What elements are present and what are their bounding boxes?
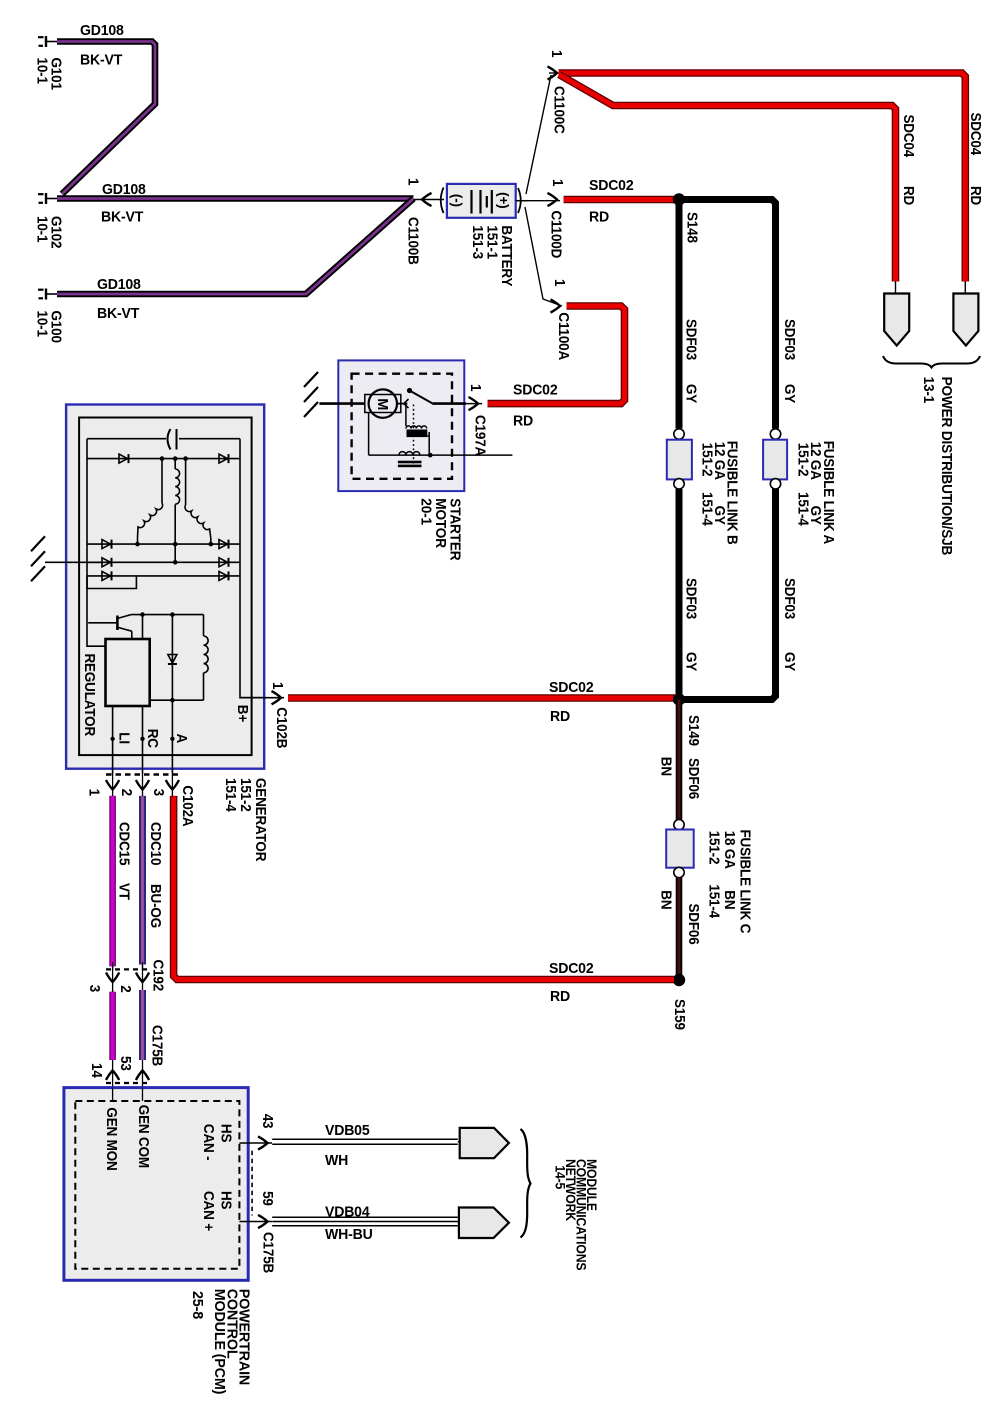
starter motor box	[338, 360, 464, 491]
diode row A left	[102, 540, 111, 549]
svg-text:BN: BN	[657, 757, 674, 776]
wire GD108 BK-VT from G101	[57, 42, 155, 195]
svg-text:GD108: GD108	[102, 182, 146, 198]
wire motor to switch contact	[397, 403, 407, 405]
svg-text:GEN COM: GEN COM	[135, 1105, 152, 1168]
svg-text:1: 1	[548, 50, 565, 58]
stator winding center coil	[175, 469, 179, 504]
fusible link C	[674, 820, 684, 830]
switch contact chevron	[404, 399, 409, 408]
generator box	[66, 405, 264, 769]
svg-text:BK-VT: BK-VT	[101, 209, 143, 225]
diode row A right	[219, 540, 228, 549]
diode upper-left	[119, 454, 128, 463]
svg-text:1: 1	[269, 682, 286, 690]
svg-text:2: 2	[117, 985, 134, 993]
PCM inner dashed box	[75, 1101, 239, 1269]
SJB pin terminal left	[895, 281, 897, 294]
svg-text:151-4: 151-4	[705, 884, 722, 918]
wire SDC02 RD generator to S159	[174, 796, 674, 980]
connector C1100B	[414, 199, 445, 201]
generator diode row wire (upper)	[87, 458, 240, 460]
connector C197A	[469, 397, 479, 410]
node solenoid junction	[428, 453, 433, 458]
generator inner box	[79, 418, 252, 756]
svg-text:RD: RD	[550, 989, 570, 1005]
ground (starter)	[304, 372, 318, 387]
connector pin arrows C102A	[106, 780, 119, 790]
svg-text:RD: RD	[900, 186, 917, 205]
svg-text:C175B: C175B	[148, 1025, 165, 1066]
svg-text:VT: VT	[115, 883, 132, 900]
node A-line junction	[170, 698, 175, 703]
svg-text:BU-OG: BU-OG	[147, 884, 164, 928]
node pin dots LI RC A	[110, 737, 114, 741]
svg-text:1: 1	[551, 279, 568, 287]
diode row C right	[219, 571, 228, 580]
connector C102B	[240, 697, 284, 699]
ground (generator)	[31, 536, 45, 551]
svg-text:1: 1	[549, 179, 566, 187]
motor circle with M	[369, 389, 397, 417]
svg-text:SDF03: SDF03	[682, 319, 699, 360]
wire GD108 BK-VT from G102	[57, 195, 414, 202]
regulator top rail wire	[131, 614, 204, 616]
connector C175B arrows	[106, 1071, 119, 1081]
svg-text:GY: GY	[682, 384, 699, 404]
node top rail junctions	[140, 612, 145, 617]
svg-text:B+: B+	[234, 705, 251, 722]
svg-text:RD: RD	[589, 209, 609, 225]
diode row B left	[102, 558, 111, 567]
svg-text:C1100B: C1100B	[404, 217, 421, 265]
capacitor (generator)	[168, 429, 171, 450]
svg-text:VDB04: VDB04	[325, 1204, 371, 1220]
svg-text:GY: GY	[781, 652, 798, 672]
svg-text:151-2: 151-2	[705, 831, 722, 865]
connector C192 dashed line	[106, 968, 149, 970]
svg-text:BN: BN	[721, 890, 738, 909]
svg-text:FUSIBLE LINK C: FUSIBLE LINK C	[736, 830, 753, 934]
stator neutral jog wire	[87, 576, 136, 589]
brace under SJB pins	[883, 356, 980, 368]
solenoid coil and core	[406, 426, 427, 429]
svg-text:2: 2	[118, 789, 135, 797]
svg-text:C1100C: C1100C	[550, 86, 567, 134]
svg-text:59: 59	[259, 1191, 276, 1206]
svg-text:BK-VT: BK-VT	[80, 52, 122, 68]
ground G102	[45, 193, 47, 204]
svg-text:151-2: 151-2	[698, 443, 715, 477]
svg-text:C102A: C102A	[179, 785, 196, 826]
node row B junction	[173, 560, 178, 565]
stator winding left coil	[138, 503, 163, 538]
svg-text:RD: RD	[967, 186, 984, 205]
svg-text:1: 1	[85, 789, 102, 797]
svg-text:SDF03: SDF03	[781, 319, 798, 360]
svg-text:53: 53	[117, 1056, 134, 1071]
svg-text:RD: RD	[550, 709, 570, 725]
stator winding taps	[161, 459, 163, 503]
label C175B (PCM side) dashed link	[251, 1151, 253, 1216]
ground wire into generator	[45, 561, 102, 563]
svg-text:SDF03: SDF03	[682, 578, 699, 619]
connector C192 arrows	[112, 962, 114, 992]
svg-text:S149: S149	[685, 715, 702, 746]
generator left bus wire	[87, 439, 106, 647]
svg-text:C175B: C175B	[259, 1232, 276, 1273]
wire solenoid to bottom rail	[427, 435, 429, 437]
wire GD108 BK-VT from G100	[57, 199, 414, 295]
PCM pin 59 lead	[239, 1221, 272, 1223]
svg-text:(-): (-)	[449, 194, 464, 207]
wire contact to solenoid coil	[405, 405, 407, 427]
wire regulator to field coil	[150, 699, 204, 701]
wire switch to C197A	[433, 402, 466, 405]
svg-text:WH-BU: WH-BU	[325, 1227, 373, 1243]
svg-text:GD108: GD108	[80, 23, 124, 39]
wire SDC02 RD C102B to S149	[288, 694, 675, 702]
wire SDF06 BN lower	[676, 878, 683, 977]
splice S149	[673, 693, 685, 705]
node taps on upper diode row	[160, 456, 165, 461]
svg-text:SDC02: SDC02	[549, 961, 594, 977]
svg-text:43: 43	[259, 1114, 276, 1129]
connector arrow pin 59	[258, 1215, 268, 1228]
generator top line with capacitor	[87, 438, 166, 440]
wire SDC04 RD inner run	[559, 75, 896, 282]
svg-text:REGULATOR: REGULATOR	[81, 654, 98, 737]
svg-text:GY: GY	[781, 384, 798, 404]
svg-text:25-8: 25-8	[189, 1291, 205, 1319]
svg-text:BN: BN	[657, 890, 674, 909]
svg-text:C1100D: C1100D	[547, 211, 564, 259]
wire SDF03 GY lower left branch	[676, 489, 683, 700]
svg-text:GEN MON: GEN MON	[103, 1107, 120, 1170]
SJB pin terminal right	[964, 281, 966, 294]
svg-text:14: 14	[88, 1063, 105, 1078]
switch pivot and blade	[407, 388, 412, 393]
battery cell plates	[470, 190, 472, 214]
wire CDC15 VT lower segment	[112, 990, 114, 1088]
connector arrow pin 43	[258, 1136, 268, 1149]
wire SDC04 RD outer run	[559, 73, 966, 282]
svg-text:RC: RC	[144, 729, 161, 748]
svg-text:SDC04: SDC04	[967, 113, 984, 156]
node row A junctions	[135, 542, 140, 547]
svg-text:GD108: GD108	[97, 277, 141, 293]
svg-text:151-4: 151-4	[794, 492, 811, 526]
svg-text:LI: LI	[115, 732, 132, 744]
winding to rectifier wires	[137, 538, 139, 544]
fusible link A	[770, 429, 780, 439]
wire SDF03 GY left branch	[676, 200, 683, 429]
svg-text:C1100A: C1100A	[555, 312, 572, 360]
svg-text:VDB05: VDB05	[325, 1123, 370, 1139]
wire SDF03 GY right branch	[683, 200, 776, 429]
svg-text:C102B: C102B	[273, 707, 290, 748]
connector C1100D	[548, 193, 558, 206]
wire SDF03 GY lower right branch	[683, 489, 776, 700]
svg-text:C197A: C197A	[471, 415, 488, 456]
wire SDF06 BN upper	[676, 700, 683, 821]
svg-text:C192: C192	[149, 960, 166, 992]
wire SDC02 RD starter to C1100A	[488, 306, 625, 404]
wire VDB04 WH-BU	[272, 1216, 458, 1218]
svg-text:M: M	[374, 398, 390, 410]
rectifier row B wire	[87, 561, 240, 563]
regulator box	[106, 639, 150, 706]
svg-text:1: 1	[404, 178, 421, 186]
wire ground to starter motor	[319, 402, 365, 405]
connector C102A dashed line	[106, 773, 179, 775]
svg-text:1: 1	[467, 384, 484, 392]
wire SDC02 RD battery to S148	[564, 196, 676, 204]
wire regulator to top rail	[142, 615, 144, 639]
svg-text:BK-VT: BK-VT	[97, 306, 139, 322]
svg-text:3: 3	[150, 789, 167, 797]
powertrain control module box	[64, 1088, 248, 1281]
generator pin leads	[112, 774, 114, 797]
network pin terminal lower	[458, 1222, 460, 1224]
fusible link B	[674, 429, 684, 439]
svg-text:A: A	[173, 734, 190, 744]
diode row B right	[219, 558, 228, 567]
svg-text:(+): (+)	[496, 192, 511, 208]
svg-text:SDF06: SDF06	[685, 904, 702, 945]
connector C1100A	[551, 299, 561, 312]
connector C1100C	[548, 66, 558, 79]
pull-in winding and core	[399, 452, 420, 455]
battery positive lead fan lines	[516, 200, 528, 202]
ground G101	[45, 36, 47, 47]
generator right B+ bus wire	[240, 439, 264, 698]
svg-text:3: 3	[86, 985, 103, 993]
transistor (regulator)	[116, 616, 119, 631]
wire motor left leg	[368, 413, 370, 456]
network pin terminal upper	[458, 1141, 460, 1143]
svg-text:CDC10: CDC10	[147, 822, 164, 866]
svg-text:S159: S159	[671, 999, 688, 1030]
svg-text:CDC15: CDC15	[115, 822, 132, 866]
PCM pin leads from C175B	[112, 1088, 114, 1101]
diode on A-line	[168, 655, 177, 664]
svg-text:SDC02: SDC02	[589, 178, 634, 194]
PCM pin 43 lead	[239, 1142, 272, 1144]
svg-text:18 GA: 18 GA	[721, 831, 738, 869]
wire LI pin	[112, 706, 114, 774]
wire RC pin	[142, 706, 144, 774]
svg-text:SDF03: SDF03	[781, 578, 798, 619]
solenoid plunger dotted line	[413, 405, 415, 467]
diode row C left	[102, 571, 111, 580]
svg-text:151-2: 151-2	[794, 443, 811, 477]
diode upper-right	[219, 454, 228, 463]
wire VDB05 WH	[272, 1138, 458, 1140]
svg-text:WH: WH	[325, 1153, 348, 1169]
battery	[447, 184, 516, 218]
brace for module network	[521, 1129, 531, 1238]
connector C175B dashed line	[106, 1082, 149, 1084]
wire CDC10 BU-OG upper segment	[142, 795, 144, 970]
wire CDC15 VT upper segment	[112, 795, 114, 970]
svg-text:RD: RD	[513, 413, 533, 429]
svg-text:SDC02: SDC02	[549, 680, 594, 696]
splice S148	[673, 193, 685, 205]
svg-text:151-4: 151-4	[698, 492, 715, 526]
rectifier row C wire	[87, 575, 240, 577]
ground G100	[45, 289, 47, 300]
stator winding right coil	[185, 505, 211, 538]
svg-text:SDF06: SDF06	[685, 758, 702, 799]
svg-text:GY: GY	[682, 652, 699, 672]
field winding coil	[203, 615, 205, 636]
svg-text:SDC04: SDC04	[900, 115, 917, 158]
svg-text:SDC02: SDC02	[513, 382, 558, 398]
svg-text:S148: S148	[683, 212, 700, 243]
wire CDC10 BU-OG lower segment	[142, 990, 144, 1088]
starter bottom rail wire	[369, 454, 513, 456]
splice S159	[673, 974, 685, 986]
rectifier row A wire	[87, 543, 240, 545]
starter motor inner dashed box	[352, 374, 452, 479]
wire A-line vertical	[171, 615, 173, 774]
motor brushes rect	[365, 395, 401, 413]
